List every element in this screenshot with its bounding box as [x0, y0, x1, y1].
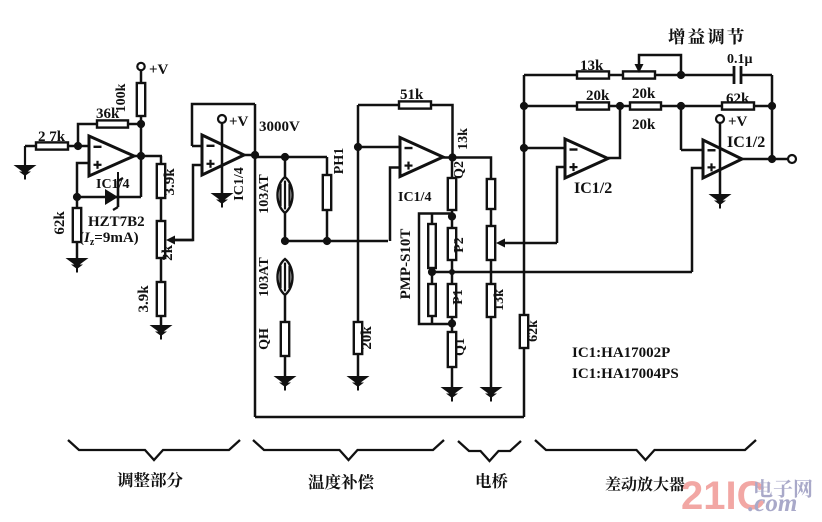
svg-text:2k: 2k: [160, 244, 176, 261]
label IC1/2: [727, 134, 765, 151]
svg-text:62k: 62k: [726, 91, 750, 107]
ground: [274, 356, 297, 391]
wire: [77, 156, 141, 197]
svg-text:62k: 62k: [52, 211, 68, 235]
wire: [244, 154, 255, 157]
svg-text:IC1/4: IC1/4: [398, 190, 431, 205]
svg-text:P2: P2: [452, 237, 467, 253]
pot 2k: [157, 221, 176, 261]
resistor 2.7k: [36, 129, 68, 150]
wire: [77, 163, 89, 197]
sensor PMP-S10T box: [419, 214, 452, 325]
wiper arrow: [496, 239, 557, 248]
node T: [520, 144, 528, 152]
resistor QH: [257, 295, 289, 356]
wire: [255, 156, 327, 159]
wire: [78, 124, 97, 146]
node U: [768, 155, 776, 163]
label IC1/2: [574, 180, 612, 197]
wire: [192, 145, 202, 148]
thermistor leg2: [428, 268, 436, 324]
ground: [441, 367, 464, 402]
svg-text:IC1:HA17004PS: IC1:HA17004PS: [572, 366, 679, 382]
svg-text:Q1: Q1: [453, 338, 468, 356]
wire row1: [524, 74, 577, 77]
wire: [221, 123, 224, 193]
zener D1 HZT7B2: [105, 172, 123, 210]
label IC1/4: [96, 177, 129, 192]
resistor Q2: [448, 158, 467, 211]
power +V: [716, 114, 748, 130]
svg-text:Q2: Q2: [452, 161, 467, 179]
label 调整部分: [117, 472, 182, 488]
label 3000V: [259, 119, 300, 135]
ground: [480, 317, 503, 402]
wire: [451, 260, 454, 284]
node Q: [616, 102, 624, 110]
wire: [128, 123, 141, 126]
svg-text:IC1/4: IC1/4: [96, 177, 129, 192]
resistor (upper): [323, 157, 331, 241]
brace 温度补偿: [253, 440, 444, 460]
wire: [160, 198, 163, 221]
node H: [323, 237, 331, 245]
resistor 13k: [487, 284, 507, 317]
wiper arrow: [166, 236, 193, 245]
label 温度补偿: [308, 474, 373, 490]
node L: [449, 269, 455, 275]
resistor 20k: [354, 322, 375, 354]
wire: [285, 240, 388, 243]
thermistor 103AT: [257, 157, 293, 214]
wire: [443, 156, 453, 159]
wire: [719, 123, 722, 194]
resistor P2: [448, 228, 467, 260]
label gain 增益调节: [668, 28, 743, 45]
svg-text:(Iz=9mA): (Iz=9mA): [79, 230, 139, 248]
wire: [134, 155, 162, 158]
wire out: [742, 158, 788, 161]
svg-text:20k: 20k: [586, 88, 610, 104]
thermistor 103AT: [257, 257, 293, 297]
node E: [251, 151, 259, 159]
wire: [524, 147, 565, 150]
wire bottom loop: [255, 348, 524, 417]
ground: [14, 146, 37, 180]
svg-text:HZT7B2: HZT7B2: [88, 214, 145, 230]
node O: [677, 71, 685, 79]
svg-text:62k: 62k: [526, 320, 541, 342]
ground: [347, 354, 370, 391]
wire: [431, 105, 453, 158]
wire: [175, 165, 202, 240]
svg-text:100k: 100k: [114, 83, 129, 112]
pot gain: [623, 71, 655, 78]
svg-text:13k: 13k: [456, 128, 471, 150]
wire left rail: [523, 75, 526, 315]
label IC types: [572, 345, 679, 382]
op-amp U1 IC1/4: [89, 136, 134, 176]
pot: [487, 226, 495, 260]
wire: [754, 105, 772, 108]
svg-text:3.9k: 3.9k: [136, 285, 152, 313]
svg-text:2 7k: 2 7k: [38, 129, 66, 145]
resistor (13k upper): [487, 179, 495, 226]
svg-text:0.1μ: 0.1μ: [727, 52, 753, 67]
svg-text:P1: P1: [451, 289, 466, 305]
resistor Q1: [448, 332, 468, 367]
node R: [677, 102, 685, 110]
label 电桥: [477, 473, 508, 489]
wire: [692, 168, 703, 272]
op-amp U5 IC1/2: [703, 140, 742, 178]
terminal out: [788, 155, 796, 163]
thermistor leg1: [428, 214, 436, 269]
resistor 62k: [520, 315, 541, 348]
node G: [281, 237, 289, 245]
resistor 100k: [114, 83, 145, 124]
wire row2: [524, 105, 577, 108]
ground: [211, 193, 234, 208]
label IC1/4 vertical: [232, 167, 247, 200]
resistor 62k: [722, 91, 754, 110]
wire: [557, 167, 565, 243]
wire: [390, 168, 400, 242]
node J: [448, 153, 456, 161]
svg-text:20k: 20k: [632, 117, 656, 133]
wire: [451, 317, 454, 332]
label 13k vertical: [456, 128, 471, 150]
power +V: [218, 114, 249, 130]
wire: [453, 158, 492, 180]
power +V: [137, 62, 168, 83]
label PH1: [332, 148, 347, 174]
node S: [768, 102, 776, 110]
wire: [681, 106, 703, 150]
label PMP-S10T: [398, 229, 414, 300]
op-amp U2 IC1/4: [202, 135, 244, 175]
wire: [254, 104, 257, 157]
node F: [281, 153, 289, 161]
wire: [254, 155, 257, 417]
wire: [661, 105, 722, 108]
svg-text:IC1/4: IC1/4: [232, 167, 247, 200]
label IC1/4: [398, 190, 431, 205]
node B: [137, 120, 145, 128]
wire: [192, 104, 255, 146]
wire: [741, 75, 772, 159]
svg-text:103AT: 103AT: [257, 257, 272, 297]
svg-text:51k: 51k: [400, 87, 424, 103]
brace 调整部分: [68, 440, 240, 460]
wire: [358, 104, 399, 107]
svg-text:IC1/2: IC1/2: [727, 134, 765, 151]
ground: [150, 316, 173, 340]
resistor 51k: [399, 87, 431, 109]
watermark 21IC: [681, 474, 766, 518]
wire: [68, 145, 89, 148]
label HZT7B2: [79, 214, 145, 248]
node A: [74, 142, 82, 150]
resistor 36k: [96, 106, 128, 128]
svg-text:20k: 20k: [359, 326, 375, 350]
resistor 3.9k: [136, 258, 165, 316]
wire: [451, 210, 454, 228]
svg-text:PMP-S10T: PMP-S10T: [398, 229, 414, 300]
node N: [428, 268, 436, 276]
node D: [73, 193, 81, 201]
wire: [284, 213, 287, 241]
svg-text:3.9k: 3.9k: [162, 168, 178, 196]
ground: [709, 194, 732, 209]
node K: [448, 212, 456, 220]
node C: [137, 152, 145, 160]
resistor P1: [448, 284, 466, 317]
op-amp U4 IC1/2: [565, 139, 608, 178]
wire: [140, 124, 143, 156]
brace 差动放大器: [535, 440, 756, 460]
brace 电桥: [458, 441, 521, 461]
svg-text:+V: +V: [149, 62, 169, 78]
svg-text:IC1:HA17002P: IC1:HA17002P: [572, 345, 670, 361]
resistor 3.9k: [157, 156, 178, 198]
op-amp U3 IC1/4: [400, 138, 443, 177]
node M: [448, 319, 456, 327]
svg-text:3000V: 3000V: [259, 119, 300, 135]
resistor 20k: [630, 86, 661, 133]
svg-text:+V: +V: [229, 114, 249, 130]
wire PH1: [357, 105, 360, 322]
svg-text:QH: QH: [257, 328, 272, 350]
wiper: [635, 55, 682, 75]
watermark 电子网: [755, 479, 812, 498]
wire bridge out: [432, 271, 692, 274]
node P: [520, 102, 528, 110]
capacitor C1 0.1u: [727, 52, 753, 84]
resistor 62k: [52, 197, 81, 242]
wire: [609, 74, 623, 77]
resistor 13k: [577, 58, 609, 79]
svg-text:13k: 13k: [580, 58, 604, 74]
resistor 20k: [577, 88, 610, 110]
svg-text:13k: 13k: [492, 289, 507, 311]
watermark .com: [748, 490, 797, 517]
svg-text:103AT: 103AT: [257, 174, 272, 214]
svg-text:.com: .com: [748, 490, 797, 517]
svg-text:IC1/2: IC1/2: [574, 180, 612, 197]
svg-text:+V: +V: [728, 114, 748, 130]
ground: [66, 242, 89, 273]
wire: [655, 74, 734, 77]
wire: [490, 260, 493, 284]
wire: [358, 146, 400, 149]
svg-text:20k: 20k: [632, 86, 656, 102]
wire: [609, 105, 630, 108]
wire: [608, 106, 620, 158]
node I: [354, 143, 362, 151]
label 差动放大器: [606, 476, 685, 491]
svg-text:PH1: PH1: [332, 148, 347, 174]
